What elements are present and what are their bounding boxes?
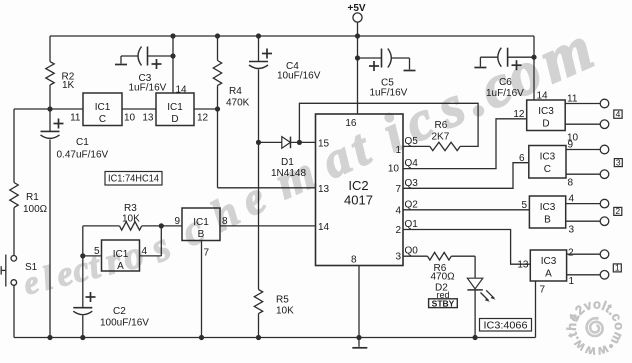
wire IC3A out top — [567, 253, 601, 255]
svg-text:IC3: IC3 — [540, 202, 556, 213]
pin 13 label — [318, 184, 330, 195]
wire IC3B out bottom — [566, 220, 601, 222]
wire R6 to IC2 pin1 — [403, 145, 430, 147]
wire IC3A pin7 to ground rail — [535, 281, 537, 338]
wire oscillator row — [14, 108, 83, 110]
analog switch IC3 B — [529, 196, 565, 228]
pin 2 label IC3A — [568, 248, 574, 259]
wire R1 to S1 — [13, 208, 15, 256]
label IC3:4066 — [480, 319, 532, 332]
node junction D1 cathode / reset — [297, 140, 302, 145]
svg-text:R5: R5 — [276, 295, 289, 306]
svg-text:100Ω: 100Ω — [23, 204, 48, 215]
label IC1:74HC14 — [105, 172, 162, 186]
svg-text:A: A — [545, 269, 552, 280]
svg-text:1uF/16V: 1uF/16V — [129, 83, 167, 94]
pin 14 label IC3D — [537, 91, 549, 102]
svg-text:12: 12 — [197, 113, 209, 124]
wire R5 to bottom rail — [258, 314, 260, 338]
pin 14 label — [318, 222, 330, 233]
svg-text:8: 8 — [351, 255, 357, 266]
svg-text:10K: 10K — [122, 214, 140, 225]
wire node to IC1A pin5 — [83, 255, 102, 257]
pin 10 label — [388, 164, 400, 175]
label Q2 — [405, 200, 419, 211]
analog switch IC3 A — [530, 250, 566, 281]
capacitor C3 — [115, 47, 173, 94]
svg-text:13: 13 — [517, 260, 529, 271]
resistor R2 — [46, 62, 75, 91]
node junction C2 bottom rail — [80, 335, 85, 340]
svg-text:2: 2 — [615, 206, 620, 216]
pin 12 label — [197, 113, 209, 124]
pin 5 label — [94, 246, 100, 257]
svg-text:5: 5 — [94, 246, 100, 257]
label Q1 — [405, 219, 419, 230]
pin 14 label — [176, 85, 188, 96]
op-amp IC1 D (inverter) — [156, 93, 194, 126]
svg-text:A: A — [117, 261, 124, 272]
svg-text:C1: C1 — [76, 137, 89, 148]
pin 4 label IC3B — [569, 194, 575, 205]
svg-text:B: B — [544, 215, 551, 226]
node junction R5 bottom rail — [256, 335, 261, 340]
svg-text:10: 10 — [124, 113, 136, 124]
svg-text:Q5: Q5 — [405, 136, 419, 147]
svg-text:13: 13 — [142, 113, 154, 124]
wire bottom ground rail — [14, 337, 536, 339]
pin 10 label — [124, 113, 136, 124]
pin 9 label IC3C — [568, 140, 574, 151]
op-amp IC1 C (inverter) — [83, 93, 122, 126]
pin 12 label IC3D — [513, 109, 525, 120]
svg-text:100uF/16V: 100uF/16V — [100, 318, 149, 329]
label output 1 — [613, 263, 621, 273]
pin 5 label IC3B — [521, 200, 527, 211]
wire rail to R4 — [217, 36, 219, 61]
svg-text:10: 10 — [388, 164, 400, 175]
svg-text:R1: R1 — [26, 192, 39, 203]
svg-text:B: B — [198, 229, 205, 240]
resistor R1 — [10, 183, 48, 216]
power +5V symbol — [348, 3, 366, 36]
node junction C1 bottom rail — [47, 335, 52, 340]
svg-text:0.47uF/16V: 0.47uF/16V — [57, 150, 109, 161]
svg-text:IC3: IC3 — [538, 106, 554, 117]
connector circle C top — [600, 145, 609, 154]
svg-text:4: 4 — [569, 194, 575, 205]
pin 11 label IC3D — [567, 94, 578, 105]
svg-text:13: 13 — [318, 184, 330, 195]
wire IC3A out bottom — [567, 274, 601, 276]
svg-text:IC1: IC1 — [95, 102, 111, 113]
pin 11 label — [70, 113, 81, 124]
wire IC3D out top — [565, 103, 600, 105]
svg-text:IC3: IC3 — [541, 256, 557, 267]
svg-text:IC1: IC1 — [193, 217, 209, 228]
svg-text:2: 2 — [395, 225, 401, 236]
led arrows — [481, 290, 496, 302]
svg-text:S1: S1 — [25, 262, 38, 273]
wire Q3 to IC3C pin6 — [403, 163, 529, 189]
label STBY — [429, 298, 458, 308]
capacitor C4 — [249, 36, 321, 142]
node junction C5 — [355, 55, 360, 60]
wire S1 to bottom rail — [13, 285, 15, 337]
svg-text:C: C — [99, 114, 106, 125]
connector circle B bottom — [600, 217, 609, 226]
wire R2 bottom to node — [49, 85, 51, 109]
svg-text:IC3: IC3 — [540, 152, 556, 163]
pin 1 label IC3A — [569, 276, 575, 287]
svg-text:STBY: STBY — [432, 298, 455, 308]
svg-text:5: 5 — [521, 200, 527, 211]
svg-text:4: 4 — [395, 206, 401, 217]
svg-text:2K7: 2K7 — [432, 132, 450, 143]
node junction C3 top rail — [170, 33, 175, 38]
wire top rail right end down — [533, 36, 535, 100]
wire C4 node down to R5 — [258, 142, 260, 289]
wire IC1A pin4 up to node — [140, 226, 162, 256]
node junction R4 top rail — [215, 33, 220, 38]
node junction pin8 ground rail — [356, 335, 361, 340]
svg-text:470Ω: 470Ω — [431, 272, 456, 283]
svg-text:C6: C6 — [499, 77, 512, 88]
connector circle D bottom — [600, 120, 609, 129]
svg-text:2: 2 — [568, 248, 574, 259]
resistor R6 470 — [428, 252, 456, 282]
pin 8 label IC3C — [568, 178, 574, 189]
pin 2 label — [395, 225, 401, 236]
wire IC3C out top — [566, 149, 600, 151]
svg-text:11: 11 — [70, 113, 81, 124]
svg-text:16: 16 — [345, 118, 357, 129]
pin 7 label — [395, 184, 401, 195]
svg-text:4: 4 — [616, 109, 621, 119]
pin 15 label — [318, 139, 330, 150]
pin 16 label — [345, 118, 357, 129]
wire R6 to LED — [451, 256, 475, 278]
wire R3 left lead — [83, 226, 120, 256]
node junction C4/D1/R5 — [256, 140, 261, 145]
svg-text:D: D — [542, 119, 549, 130]
wire IC1B pin8 to IC2 pin14 — [220, 225, 316, 227]
node junction C4 top rail — [256, 33, 261, 38]
wire Q4 to IC3D pin12 — [403, 119, 527, 169]
wire IC3B out top — [566, 203, 601, 205]
wire node to IC1B pin9 — [161, 225, 182, 227]
svg-text:1: 1 — [615, 263, 620, 273]
wire +5V to IC2 pin16 — [357, 36, 359, 114]
svg-text:IC3:4066: IC3:4066 — [484, 321, 528, 332]
svg-text:IC2: IC2 — [348, 178, 368, 193]
svg-text:IC1: IC1 — [113, 249, 129, 260]
svg-text:Q1: Q1 — [405, 219, 419, 230]
node junction R3/pin4/pin9 — [159, 223, 164, 228]
capacitor C2 — [73, 256, 149, 338]
node junction R4/pin12 — [215, 106, 220, 111]
resistor R5 — [254, 290, 294, 317]
wire far-left vertical top — [13, 109, 15, 183]
wire C3 vertical — [172, 36, 174, 93]
svg-text:IC1: IC1 — [167, 102, 183, 113]
svg-text:Q3: Q3 — [405, 178, 419, 189]
wire +5V top rail — [50, 35, 534, 37]
svg-text:7: 7 — [204, 248, 210, 259]
svg-text:10uF/16V: 10uF/16V — [277, 71, 321, 82]
wire IC3D out bottom — [565, 123, 600, 125]
svg-text:Q0: Q0 — [405, 246, 419, 257]
pin 7 label IC3A — [540, 285, 546, 296]
diode D1 1N4148 — [259, 137, 316, 179]
pin 3 label — [395, 252, 401, 263]
wire Q1 to IC3A pin13 — [403, 230, 530, 265]
wire IC2 pin8 to ground — [358, 266, 360, 338]
resistor R3 — [120, 203, 142, 230]
node junction LED ground — [473, 335, 478, 340]
wire IC1D pin12 to R4 node — [194, 108, 218, 110]
svg-text:10K: 10K — [276, 306, 294, 317]
pin 3 label IC3B — [569, 225, 575, 236]
svg-text:1: 1 — [395, 145, 401, 156]
pin 9 label — [174, 216, 180, 227]
label Q3 — [405, 178, 419, 189]
svg-text:8: 8 — [568, 178, 574, 189]
analog switch IC3 C — [529, 146, 566, 179]
pin 7 label IC1B — [204, 248, 210, 259]
pin 4 label — [395, 206, 401, 217]
node junction C6 — [531, 55, 536, 60]
svg-text:1uF/16V: 1uF/16V — [486, 88, 524, 99]
svg-text:D1: D1 — [281, 157, 294, 168]
capacitor C5 — [358, 49, 416, 99]
capacitor C1 — [41, 109, 109, 338]
op-amp IC1 A (inverter) — [102, 240, 140, 272]
node junction R2/C1/osc — [47, 106, 52, 111]
label output 2 — [614, 206, 622, 216]
svg-text:1uF/16V: 1uF/16V — [370, 88, 408, 99]
svg-text:IC1:74HC14: IC1:74HC14 — [108, 174, 159, 185]
svg-text:1: 1 — [569, 276, 575, 287]
wire Q0 to R6 — [403, 255, 428, 257]
node junction C3 plus — [170, 53, 175, 58]
pin 13 label IC3A — [517, 260, 529, 271]
svg-text:6: 6 — [519, 153, 525, 164]
connector circle D top — [600, 99, 609, 108]
svg-text:7: 7 — [540, 285, 546, 296]
wire IC1C pin10 to IC1D pin13 — [122, 108, 156, 110]
resistor R6 2K7 — [430, 120, 460, 151]
svg-text:1K: 1K — [62, 80, 75, 91]
svg-text:D: D — [171, 114, 178, 125]
node junction IC1A pin5/C2 — [80, 253, 85, 258]
svg-text:R6: R6 — [435, 120, 448, 131]
svg-text:7: 7 — [395, 184, 401, 195]
pin 4 label — [142, 246, 148, 257]
svg-text:12: 12 — [513, 109, 525, 120]
node junction +5V rail — [355, 33, 360, 38]
label Q5 — [405, 136, 419, 147]
connector circle C bottom — [600, 170, 609, 179]
op-amp IC1 B (inverter) — [182, 208, 220, 241]
svg-text:R3: R3 — [124, 203, 137, 214]
node junction pin7 ground — [199, 335, 204, 340]
svg-text:Q2: Q2 — [405, 200, 419, 211]
svg-text:1N4148: 1N4148 — [271, 168, 306, 179]
label output 4 — [614, 109, 622, 119]
connector circle A top — [600, 250, 609, 259]
IC IC2 4017 — [316, 114, 404, 266]
resistor R4 — [213, 61, 249, 109]
svg-text:470K: 470K — [226, 98, 250, 109]
svg-text:4017: 4017 — [344, 193, 373, 208]
pin 8 label — [351, 255, 357, 266]
led D2 red — [435, 278, 483, 300]
label Q4 — [405, 158, 419, 169]
wire Q2 to IC3B pin5 — [403, 209, 529, 211]
wire left branch down from rail — [49, 36, 51, 62]
pin 13 label — [142, 113, 154, 124]
analog switch IC3 D — [527, 100, 566, 131]
pin 10 label IC3D — [567, 133, 579, 144]
svg-text:3: 3 — [395, 252, 401, 263]
pin 6 label IC3C — [519, 153, 525, 164]
wire LED to ground rail — [474, 290, 476, 338]
wire R4 down to IC2 pin13 — [218, 86, 316, 188]
connector circle A bottom — [600, 271, 609, 280]
label Q0 — [405, 246, 419, 257]
svg-text:Q4: Q4 — [405, 158, 419, 169]
pin 8 label IC1B — [222, 216, 228, 227]
svg-text:14: 14 — [176, 85, 188, 96]
svg-text:14: 14 — [537, 91, 549, 102]
svg-text:14: 14 — [318, 222, 330, 233]
wire IC3C out bottom — [566, 173, 600, 175]
svg-text:3: 3 — [616, 157, 621, 167]
capacitor C6 — [474, 48, 534, 99]
svg-text:C2: C2 — [113, 306, 126, 317]
svg-text:C: C — [544, 164, 551, 175]
svg-text:3: 3 — [569, 225, 575, 236]
pin 1 label — [395, 145, 401, 156]
label output 3 — [614, 157, 622, 167]
connector circle B top — [600, 199, 609, 208]
svg-text:9: 9 — [174, 216, 180, 227]
wire R3 right lead — [142, 225, 162, 227]
ground symbol — [352, 338, 367, 348]
svg-text:R4: R4 — [229, 86, 242, 97]
wire IC1B pin7 to ground rail — [201, 241, 203, 338]
svg-text:15: 15 — [318, 139, 330, 150]
wire reset feedback Q5-R6-D1 — [299, 103, 478, 146]
switch S1 — [1, 255, 37, 287]
